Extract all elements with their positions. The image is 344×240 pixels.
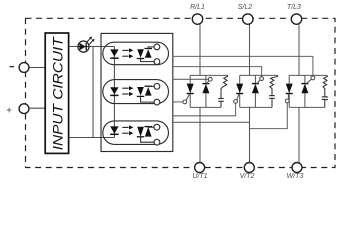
wire gate ch2 top bbox=[173, 67, 262, 77]
dashed enclosure border bbox=[26, 18, 336, 167]
terminal W/T3 bbox=[292, 163, 302, 173]
gate bus wires bbox=[173, 56, 313, 128]
scr left body ch1 bbox=[189, 75, 191, 83]
wire ch2 bottom rail bbox=[240, 106, 272, 108]
opto U4 pins bbox=[154, 124, 160, 130]
scr Q2b bbox=[252, 84, 259, 94]
opto U2 light arrows bbox=[122, 49, 128, 51]
wire gate ch3 top bbox=[173, 56, 313, 76]
svg-text:S/L2: S/L2 bbox=[238, 4, 253, 11]
scr Q3a gate bbox=[287, 94, 289, 99]
opto U3 LED bbox=[110, 87, 118, 94]
scr Q1b gate bbox=[207, 81, 209, 85]
wire phase feed ch2 bbox=[249, 24, 251, 75]
optocoupler U4 bbox=[103, 121, 169, 144]
svg-text:V/T2: V/T2 bbox=[240, 173, 255, 180]
opto U2 phototriac bbox=[137, 49, 144, 57]
wire ch3 output feed bbox=[298, 107, 300, 162]
wire gate ch3 bottom seg2 bbox=[250, 103, 288, 129]
input circuit box U1 bbox=[45, 33, 68, 153]
scr Q3b bbox=[301, 84, 308, 94]
svg-text:INPUT CIRCUIT: INPUT CIRCUIT bbox=[50, 36, 66, 150]
opto U3 pins bbox=[154, 83, 160, 89]
label minus bbox=[10, 66, 15, 68]
wire ch2 output feed bbox=[249, 107, 251, 162]
svg-text:W/T3: W/T3 bbox=[287, 173, 304, 180]
terminal U/T1 bbox=[195, 163, 205, 173]
opto U2 LED bbox=[110, 49, 118, 56]
scr Q1a bbox=[187, 84, 194, 94]
terminal S/L2 bbox=[243, 14, 253, 24]
wire ch1 output feed bbox=[199, 107, 201, 162]
resistor R2 snubber bbox=[270, 75, 278, 95]
terminal T/L3 bbox=[291, 14, 301, 24]
svg-text:T/L3: T/L3 bbox=[287, 4, 301, 11]
scr Q2b gate bbox=[256, 80, 260, 85]
scr left body ch2 bbox=[239, 75, 241, 83]
scr left body ch3 bbox=[288, 75, 290, 83]
terminal input plus bbox=[19, 104, 29, 114]
optocoupler U2 bbox=[103, 42, 169, 64]
opto LED chain wire bbox=[113, 47, 115, 138]
wire gate ch3 bottom seg1 bbox=[173, 121, 250, 123]
opto U4 phototriac bbox=[137, 127, 144, 137]
opto U4 light arrows bbox=[122, 126, 128, 128]
svg-text:U/T1: U/T1 bbox=[192, 173, 207, 180]
opto U2 pins bbox=[154, 44, 160, 50]
opto U3 phototriac bbox=[137, 87, 144, 96]
scr right body ch3 bbox=[304, 75, 306, 83]
capacitor C3 snubber bbox=[322, 96, 328, 98]
wire phase feed ch3 bbox=[298, 24, 300, 75]
wire from input circuit to opto chain bbox=[69, 46, 115, 48]
wire ch1 top rail bbox=[190, 74, 228, 76]
wire phase feed ch1 bbox=[199, 24, 201, 75]
svg-text:R/L1: R/L1 bbox=[190, 4, 205, 11]
wire input stub top bbox=[29, 67, 45, 69]
capacitor C2 snubber bbox=[269, 95, 274, 97]
scr Q1a gate bbox=[186, 94, 189, 100]
wire ch3 top rail bbox=[289, 74, 327, 76]
scr Q2a gate bbox=[237, 94, 239, 100]
scr right body ch1 bbox=[205, 75, 207, 83]
terminal V/T2 bbox=[244, 163, 254, 173]
wire return from opto chain bbox=[69, 137, 115, 139]
opto U3 light arrows bbox=[122, 87, 128, 89]
wire gate ch2 bottom bbox=[173, 103, 236, 116]
scr Q2a bbox=[236, 84, 243, 94]
wire ch1 bottom rail bbox=[190, 106, 221, 108]
scr Q3b gate bbox=[306, 79, 312, 84]
wire gate ch1 bottom bbox=[173, 101, 183, 103]
terminal R/L1 bbox=[192, 14, 202, 24]
wire input stub bottom bbox=[29, 107, 45, 109]
resistor R3 snubber bbox=[323, 75, 327, 97]
resistor R1 snubber bbox=[221, 75, 228, 98]
label plus bbox=[7, 108, 12, 113]
wire ch3 bottom rail bbox=[289, 106, 325, 108]
opto U4 LED bbox=[110, 126, 118, 133]
optocoupler U3 bbox=[103, 80, 169, 104]
wire gate ch1 top bbox=[173, 78, 209, 80]
wire vertical link bbox=[92, 47, 94, 138]
scr right body ch2 bbox=[254, 75, 256, 83]
scr Q1b bbox=[202, 84, 209, 94]
capacitor C1 snubber bbox=[218, 98, 223, 100]
wire ch2 top rail bbox=[240, 74, 278, 76]
scr Q3a bbox=[286, 84, 293, 94]
optocoupler block bbox=[101, 33, 173, 151]
terminal input minus bbox=[19, 63, 29, 73]
LED indicator D1 bbox=[78, 37, 95, 53]
